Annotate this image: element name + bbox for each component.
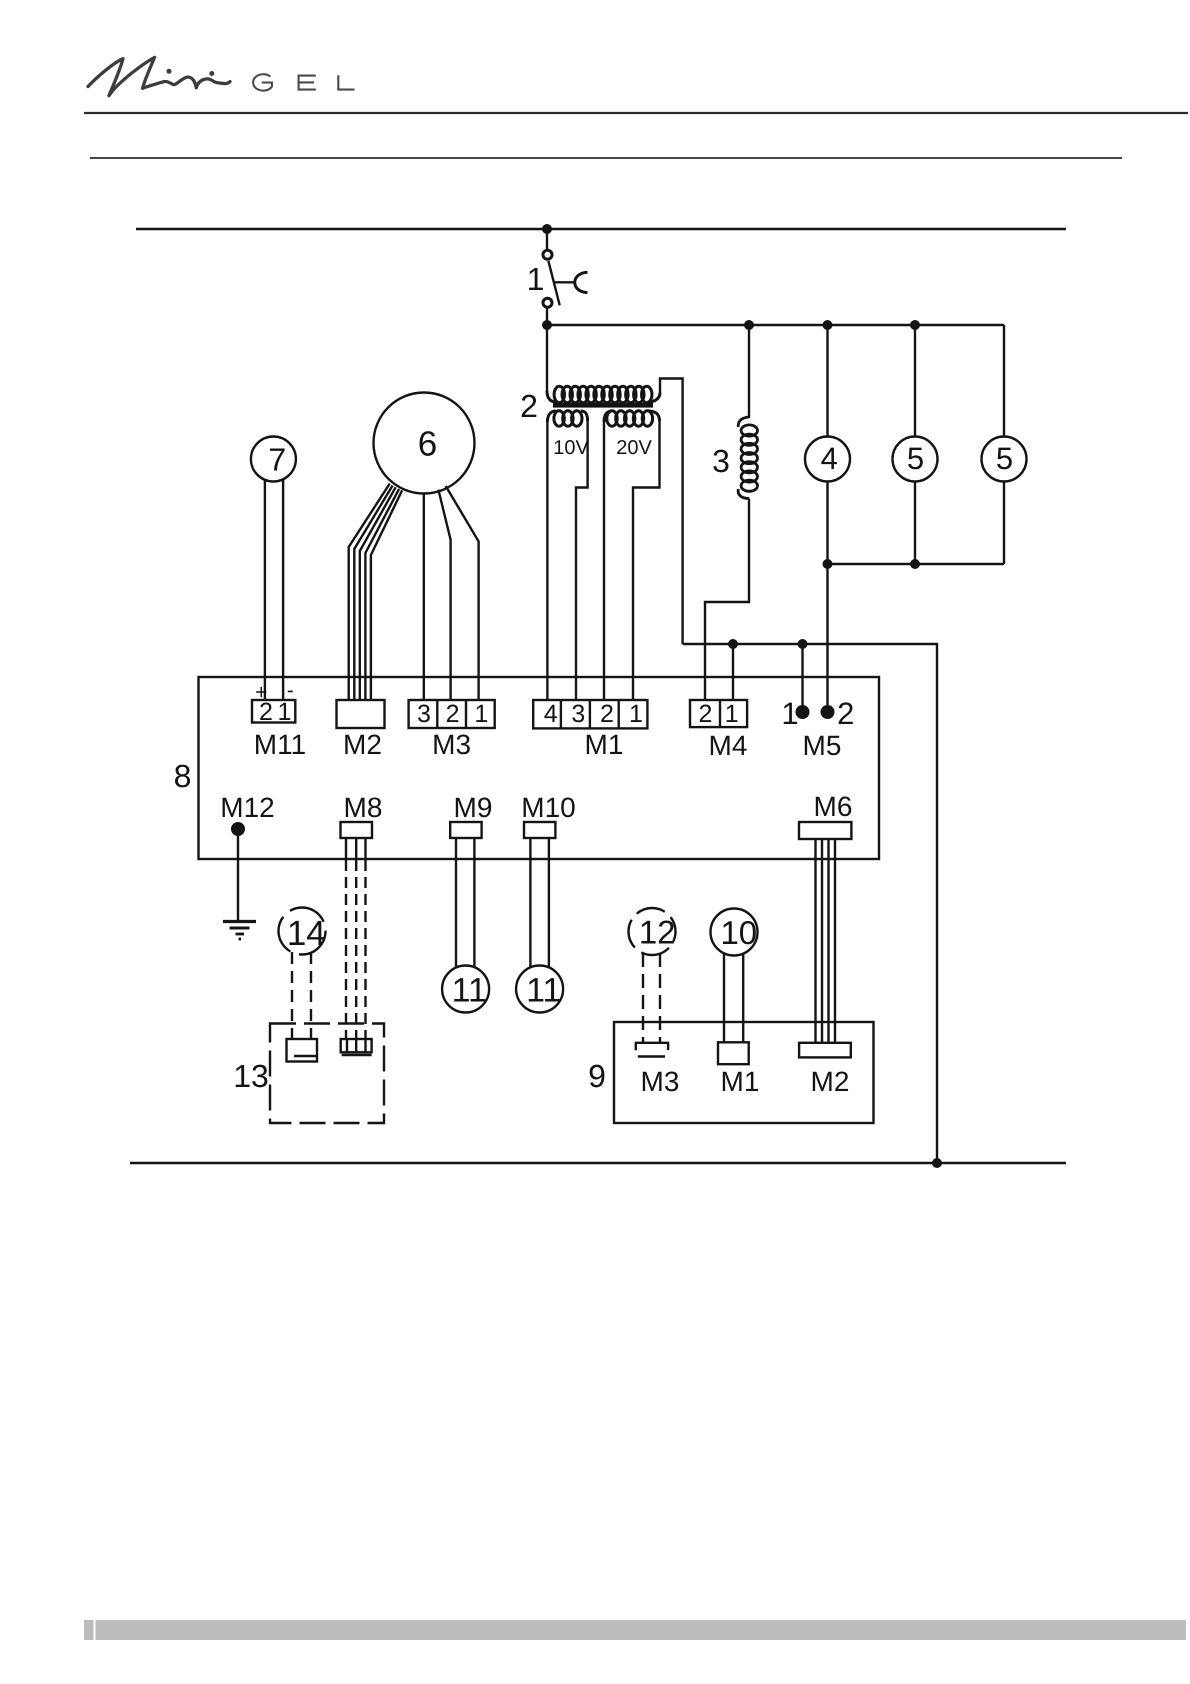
svg-text:M8: M8 <box>344 792 383 823</box>
svg-text:M5: M5 <box>803 730 842 761</box>
svg-text:+: + <box>255 681 267 704</box>
svg-text:M2: M2 <box>343 729 382 760</box>
svg-text:10: 10 <box>720 914 757 951</box>
svg-text:5: 5 <box>996 441 1013 476</box>
svg-text:M11: M11 <box>254 729 306 760</box>
svg-text:10V: 10V <box>553 437 589 459</box>
svg-text:M3: M3 <box>641 1066 680 1097</box>
svg-text:7: 7 <box>268 442 286 478</box>
svg-text:1: 1 <box>278 698 292 726</box>
svg-text:6: 6 <box>418 424 437 463</box>
svg-text:M3: M3 <box>432 729 471 760</box>
svg-text:11: 11 <box>526 972 561 1010</box>
svg-text:2: 2 <box>520 388 538 424</box>
svg-text:3: 3 <box>712 443 730 479</box>
svg-text:3: 3 <box>571 700 585 728</box>
svg-text:M10: M10 <box>521 792 575 823</box>
svg-text:9: 9 <box>588 1058 606 1094</box>
svg-text:M9: M9 <box>454 792 493 823</box>
svg-text:11: 11 <box>452 972 487 1010</box>
svg-text:1: 1 <box>474 700 488 728</box>
svg-text:1: 1 <box>725 700 739 728</box>
svg-text:3: 3 <box>417 700 431 728</box>
svg-text:1: 1 <box>527 261 545 297</box>
svg-text:4: 4 <box>544 700 558 728</box>
svg-text:2: 2 <box>446 700 460 728</box>
svg-text:M2: M2 <box>811 1066 850 1097</box>
svg-text:1: 1 <box>781 696 798 731</box>
svg-text:12: 12 <box>639 914 676 951</box>
svg-text:13: 13 <box>233 1058 269 1094</box>
svg-text:2: 2 <box>837 696 854 731</box>
svg-text:14: 14 <box>287 914 326 953</box>
svg-text:1: 1 <box>629 700 643 728</box>
svg-text:20V: 20V <box>616 437 652 459</box>
svg-text:-: - <box>287 679 294 702</box>
svg-text:8: 8 <box>174 758 192 794</box>
svg-text:M1: M1 <box>585 729 624 760</box>
svg-text:M12: M12 <box>220 792 274 823</box>
svg-text:5: 5 <box>907 441 924 476</box>
svg-text:M1: M1 <box>721 1066 760 1097</box>
svg-text:M4: M4 <box>709 730 748 761</box>
svg-text:4: 4 <box>821 441 838 476</box>
svg-text:M6: M6 <box>814 791 853 822</box>
svg-text:2: 2 <box>698 700 712 728</box>
svg-text:2: 2 <box>600 700 614 728</box>
